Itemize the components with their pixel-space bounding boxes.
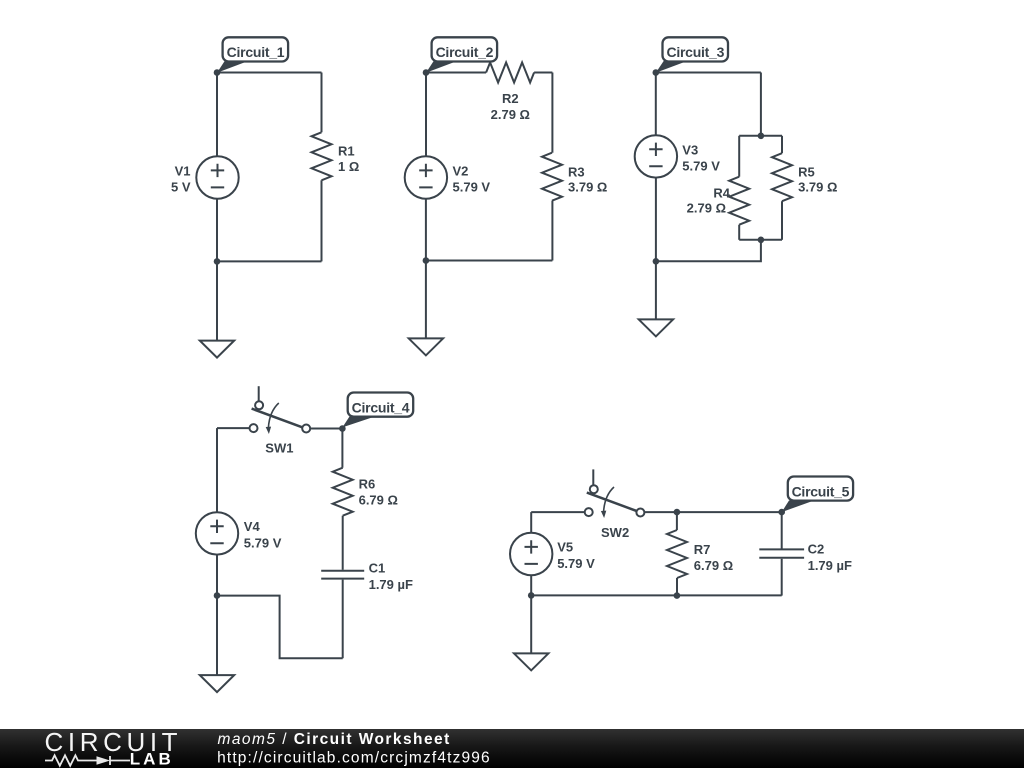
- node bottom-left C2: [423, 257, 430, 264]
- svg-text:R1: R1: [338, 144, 355, 159]
- wire top rail C3: [656, 72, 761, 74]
- resistor R4: [687, 177, 750, 225]
- svg-text:5.79 V: 5.79 V: [453, 180, 491, 195]
- wire left upper C2: [425, 73, 427, 157]
- wire left lower C1: [216, 199, 218, 262]
- svg-text:5.79 V: 5.79 V: [557, 556, 595, 571]
- node switch-resistor C4: [339, 425, 346, 432]
- ground C3: [639, 319, 673, 336]
- wire top rail C1: [217, 72, 322, 74]
- label Circuit_4: [342, 393, 413, 428]
- svg-text:Circuit_2: Circuit_2: [436, 44, 494, 60]
- svg-text:Circuit_3: Circuit_3: [666, 44, 724, 60]
- wire ground stub C4: [216, 596, 218, 676]
- node parallel top C3: [758, 133, 765, 140]
- svg-text:5 V: 5 V: [171, 180, 191, 195]
- svg-text:V2: V2: [453, 163, 469, 178]
- resistor R1: [312, 132, 360, 180]
- svg-text:1.79 µF: 1.79 µF: [808, 558, 852, 573]
- svg-text:SW2: SW2: [601, 525, 629, 540]
- wire right lower C1: [321, 180, 323, 261]
- wire right upper C1: [321, 73, 323, 133]
- svg-text:5.79 V: 5.79 V: [244, 535, 282, 550]
- wire top-right rail C2: [534, 72, 552, 74]
- wire switch right rail C5: [644, 511, 781, 513]
- voltage source V4: [196, 512, 282, 554]
- wire C2 bottom lead C5: [781, 559, 783, 596]
- node bottom-left C4: [214, 592, 221, 599]
- svg-text:6.79 Ω: 6.79 Ω: [359, 493, 398, 508]
- svg-text:V3: V3: [682, 142, 698, 157]
- wire R4 top lead C3: [738, 136, 740, 177]
- wire switch left lead C5: [531, 511, 585, 513]
- wire R7 bottom lead C5: [676, 578, 678, 596]
- label Circuit_1: [217, 37, 288, 72]
- resistor R2: [486, 63, 534, 123]
- wire source bottom lead C4: [216, 554, 218, 595]
- svg-text:3.79 Ω: 3.79 Ω: [568, 180, 607, 195]
- node top-left C2: [423, 69, 430, 76]
- wire R4 bottom lead C3: [738, 225, 740, 240]
- wire R7 top lead C5: [676, 512, 678, 530]
- svg-text:2.79 Ω: 2.79 Ω: [687, 201, 726, 216]
- svg-text:SW1: SW1: [265, 441, 293, 456]
- svg-text:1.79 µF: 1.79 µF: [369, 577, 413, 592]
- voltage source V2: [405, 156, 491, 198]
- svg-text:LAB: LAB: [130, 750, 174, 768]
- svg-text:R2: R2: [502, 91, 519, 106]
- svg-text:1 Ω: 1 Ω: [338, 159, 359, 174]
- capacitor C2: [759, 542, 852, 574]
- wire left lower C3: [655, 178, 657, 262]
- wire switch left lead C4: [217, 427, 250, 429]
- wire top-left rail C2: [426, 72, 486, 74]
- node C2 top C5: [778, 509, 785, 516]
- wire bottom rail C5: [531, 594, 782, 596]
- wire C2 top lead C5: [781, 512, 783, 549]
- switch SW2: [585, 469, 645, 540]
- ground C4: [200, 675, 234, 692]
- svg-text:Circuit_5: Circuit_5: [792, 483, 850, 499]
- wire right upper C2: [551, 73, 553, 153]
- svg-text:V4: V4: [244, 519, 261, 534]
- svg-text:V1: V1: [175, 164, 191, 179]
- svg-text:maom5 / Circuit Worksheet: maom5 / Circuit Worksheet: [218, 731, 451, 748]
- svg-text:Circuit_1: Circuit_1: [227, 44, 285, 60]
- wire right lower C2: [551, 201, 553, 261]
- node parallel bottom C3: [758, 237, 765, 244]
- label Circuit_2: [426, 37, 497, 72]
- wire right upper C3: [760, 73, 762, 136]
- resistor R3: [542, 153, 607, 201]
- wire R5 top lead C3: [781, 136, 783, 153]
- wire source top lead C4: [216, 428, 218, 512]
- label Circuit_3: [656, 37, 728, 73]
- wire ground stub C2: [425, 261, 427, 339]
- wire parallel bottom rail C3: [739, 239, 782, 241]
- voltage source V5: [510, 533, 595, 575]
- logo resistor-diode squiggle: [45, 755, 130, 765]
- voltage source V3: [635, 135, 721, 177]
- svg-text:C1: C1: [369, 561, 386, 576]
- wire bottom rail C1: [217, 260, 322, 262]
- svg-text:http://circuitlab.com/crcjmzf4: http://circuitlab.com/crcjmzf4tz996: [217, 749, 491, 766]
- wire ground stub C1: [216, 261, 218, 340]
- wire R6 top lead C4: [341, 429, 343, 468]
- svg-text:R7: R7: [694, 542, 711, 557]
- wire left lower C2: [425, 199, 427, 261]
- wire source top lead C5: [530, 512, 532, 533]
- wire bottom rail C2: [426, 260, 553, 262]
- node top-left C1: [214, 69, 221, 76]
- svg-text:2.79 Ω: 2.79 Ω: [491, 107, 530, 122]
- wire R6 to C1 cap C4: [342, 516, 344, 570]
- wire left upper C3: [655, 73, 657, 136]
- svg-text:3.79 Ω: 3.79 Ω: [798, 180, 837, 195]
- wire C1 bottom lead C4: [342, 580, 344, 659]
- svg-text:R4: R4: [713, 186, 730, 201]
- svg-text:R3: R3: [568, 165, 585, 180]
- svg-text:C2: C2: [808, 542, 825, 557]
- svg-text:Circuit_4: Circuit_4: [352, 399, 410, 415]
- node top-left C3: [653, 69, 660, 76]
- resistor R7: [667, 530, 733, 578]
- capacitor C1: [321, 561, 413, 593]
- wire R5 bottom lead C3: [781, 201, 783, 240]
- node bottom-left C1: [214, 258, 221, 265]
- node bottom-left C3: [653, 258, 660, 265]
- resistor R6: [333, 468, 398, 516]
- ground C2: [409, 338, 443, 355]
- node source bottom C5: [528, 592, 535, 599]
- switch SW1: [250, 386, 311, 455]
- wire bottom jog C4: [217, 596, 343, 659]
- svg-text:R6: R6: [359, 477, 376, 492]
- wire parallel top rail C3: [739, 135, 782, 137]
- svg-text:6.79 Ω: 6.79 Ω: [694, 558, 733, 573]
- resistor R5: [772, 153, 837, 201]
- ground C5: [514, 653, 548, 670]
- wire left upper C1: [216, 73, 218, 157]
- wire source bottom lead C5: [530, 575, 532, 595]
- wire parallel to bottom rail C3: [656, 240, 761, 261]
- footer background bar: [0, 729, 1024, 768]
- node R7 bottom C5: [674, 592, 681, 599]
- wire switch right lead C4: [310, 428, 342, 430]
- ground C1: [200, 341, 234, 358]
- svg-text:R5: R5: [798, 165, 815, 180]
- voltage source V1: [171, 156, 239, 198]
- wire ground stub C3: [655, 261, 657, 319]
- svg-text:5.79 V: 5.79 V: [682, 159, 720, 174]
- node switch-R7 C5: [674, 509, 681, 516]
- wire ground stub C5: [530, 595, 532, 653]
- label Circuit_5: [782, 477, 853, 513]
- svg-text:V5: V5: [557, 540, 573, 555]
